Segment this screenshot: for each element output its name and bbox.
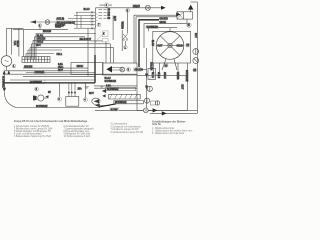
arrow down on wire 1 — [145, 74, 148, 78]
nested corner c4 — [148, 28, 177, 32]
lamp bottom — [143, 108, 148, 113]
right edge line — [196, 2, 198, 110]
svg-text:GRAU: GRAU — [77, 65, 84, 68]
legend middle items — [111, 123, 144, 134]
arrow right bottom 1 — [153, 108, 158, 112]
loom parallelogram 2 — [114, 101, 143, 104]
svg-text:Krupp ZB 10 mit 4-fach Scheinw: Krupp ZB 10 mit 4-fach Scheinwerfer und … — [14, 120, 88, 123]
wire stair 6 — [28, 50, 62, 59]
big arrow left solid — [106, 66, 112, 73]
relay strip box — [106, 87, 136, 90]
wire to vertical — [141, 69, 146, 71]
top line with lamp — [96, 7, 162, 9]
svg-text:(GELB): (GELB) — [57, 19, 65, 21]
box A control — [71, 63, 103, 75]
wire thin continuation up — [94, 28, 96, 55]
wire generator down — [6, 66, 8, 70]
scissors cut symbol — [123, 34, 128, 39]
relay circle 2 — [155, 101, 159, 105]
arrow left mid 2 — [102, 94, 105, 97]
wire stair 2 — [35, 37, 86, 59]
svg-text:BRAUN: BRAUN — [43, 30, 51, 33]
wire stair 5 — [30, 48, 114, 63]
wire down from generator area — [3, 75, 5, 89]
node 12 — [186, 43, 190, 47]
svg-text:GELB: GELB — [177, 45, 184, 47]
wire stair 7 — [26, 54, 54, 60]
svg-text:8 Schlussleuchte Lampe 6V 5W: 8 Schlussleuchte Lampe 6V 5W — [111, 131, 144, 134]
bottom second line — [150, 110, 197, 113]
wire stub node4 — [84, 83, 86, 97]
lamp symbol S1 — [45, 20, 50, 25]
wire bus left c — [4, 73, 137, 75]
arrow small left pair — [45, 95, 48, 98]
node 13 — [193, 68, 197, 72]
label box on line — [133, 5, 140, 8]
ground marks — [85, 87, 90, 89]
wire top-left horizontal — [30, 21, 68, 23]
svg-text:GELB: GELB — [37, 42, 44, 44]
battery pins — [69, 83, 75, 97]
arrow down solid — [3, 88, 6, 92]
svg-text:ROT: ROT — [36, 45, 41, 47]
arrow left mid 1 — [102, 89, 106, 93]
wire bus left a — [23, 67, 88, 69]
svg-text:5 Lichtmaschine: 5 Lichtmaschine — [111, 123, 128, 126]
svg-text:ROT: ROT — [89, 93, 94, 95]
arrow up solid — [188, 5, 193, 10]
svg-text:BLAU: BLAU — [84, 8, 90, 11]
wire double line — [112, 68, 123, 71]
nested corner c1 — [134, 15, 177, 63]
node 3 — [57, 97, 61, 101]
svg-text:GELB: GELB — [58, 26, 65, 28]
wire bus left b — [4, 70, 88, 72]
svg-text:FAHRER: FAHRER — [35, 71, 45, 74]
svg-text:HELL: HELL — [57, 54, 63, 56]
svg-text:15A: 15A — [78, 88, 83, 91]
flasher circle inside — [144, 98, 149, 103]
fan housing box — [153, 31, 191, 63]
wire stair 3 — [33, 40, 90, 59]
svg-text:GRAU: GRAU — [133, 5, 140, 8]
svg-text:SCHW: SCHW — [111, 109, 119, 111]
svg-text:WEISS: WEISS — [176, 72, 178, 80]
vertical from G box — [105, 42, 107, 63]
arrow right bottom 2 — [162, 111, 167, 115]
wires below fan — [162, 59, 177, 70]
svg-text:ROT: ROT — [58, 70, 63, 72]
switch cluster grid — [68, 12, 95, 28]
label schwarz box on thick wire — [30, 80, 46, 83]
node 11 — [187, 23, 191, 27]
svg-text:SCHWARZ: SCHWARZ — [147, 26, 159, 29]
wire node2 stub — [39, 27, 41, 30]
label gelb-schwarz box — [56, 21, 74, 24]
terminal strip X1 — [22, 57, 50, 63]
wire lines mid right — [94, 86, 137, 88]
svg-text:GRUEN: GRUEN — [24, 67, 33, 69]
loom parallelogram 1 — [109, 94, 141, 99]
node 1b — [124, 46, 128, 50]
svg-text:SCHWARZ: SCHWARZ — [105, 80, 117, 83]
svg-text:ROT: ROT — [194, 33, 196, 38]
node 2 horn — [35, 87, 39, 91]
small kasten box — [102, 31, 108, 37]
svg-text:GRUEN: GRUEN — [37, 39, 46, 41]
svg-text:7 Zundkerze Lampe 6V 2W: 7 Zundkerze Lampe 6V 2W — [111, 128, 140, 131]
svg-text:3 - Blinkleuchten der linke: 3 - Blinkleuchten der linke Seite — [152, 132, 185, 135]
svg-text:SCHWARZ: SCHWARZ — [107, 88, 119, 91]
thick diagonal bottom — [99, 104, 116, 107]
svg-text:10 Sicherungsdose 8-fach: 10 Sicherungsdose 8-fach — [64, 135, 91, 138]
wire bus left d — [26, 72, 95, 74]
node 7 — [97, 23, 101, 27]
nested corner c3 — [144, 24, 190, 48]
connector pin rows — [99, 10, 107, 19]
legend left items — [14, 125, 94, 138]
wavy body line 1 — [95, 34, 106, 45]
wire box to node 11 — [186, 19, 188, 23]
svg-text:GRAU: GRAU — [159, 21, 166, 24]
svg-text:GRUEN: GRUEN — [150, 62, 152, 71]
svg-text:6.3A: 6.3A — [58, 63, 63, 66]
label gruen box — [134, 68, 141, 71]
wire to G box — [90, 40, 103, 42]
arrow left top-left — [31, 20, 37, 24]
bottom long line — [95, 109, 197, 111]
wire stair 1 — [36, 34, 96, 60]
wire thick ground run — [4, 82, 95, 84]
wire horn right — [44, 97, 49, 99]
connector box X2 — [177, 12, 193, 19]
wire thick vertical — [94, 55, 96, 83]
svg-text:SCHWARZ: SCHWARZ — [115, 101, 127, 104]
wire vertical into box — [146, 48, 148, 110]
svg-text:Lfde Nr.: Lfde Nr. — [152, 123, 162, 126]
svg-text:GELB: GELB — [16, 41, 18, 48]
arrow left bottom — [95, 104, 100, 107]
lamp top — [145, 5, 150, 10]
indicator lamp oval — [92, 98, 100, 104]
switch contacts — [91, 11, 93, 29]
svg-text:GELB ROT: GELB ROT — [80, 39, 92, 41]
wavy body line 2 — [148, 74, 160, 80]
wire generator up — [7, 28, 12, 55]
wire bus left f — [10, 79, 95, 81]
label schwarz box bottom — [110, 108, 119, 111]
svg-text:6V: 6V — [48, 92, 51, 94]
node 5 — [126, 9, 130, 13]
G box — [103, 39, 109, 42]
small box inside — [151, 101, 156, 105]
nested corner c2 thick — [139, 20, 159, 67]
svg-text:ROT: ROT — [158, 45, 163, 47]
fan M1 — [156, 32, 184, 60]
box B arrow unit — [103, 63, 138, 75]
svg-text:7.5A: 7.5A — [13, 41, 16, 46]
svg-text:BLAU: BLAU — [151, 40, 154, 46]
wire bus left e — [23, 75, 95, 77]
node 4 — [83, 98, 87, 102]
wire drop b — [22, 30, 24, 57]
battery B1 — [66, 97, 79, 107]
svg-text:GRUEN: GRUEN — [159, 18, 168, 20]
label fahrer box — [34, 71, 45, 74]
double line second — [136, 17, 177, 64]
node 1 — [12, 64, 16, 68]
svg-text:6 Zundspule mit Unterbrecher: 6 Zundspule mit Unterbrecher — [111, 125, 142, 128]
svg-text:GELB-SCHWARZ: GELB-SCHWARZ — [57, 21, 76, 24]
wire hook arc — [4, 92, 100, 108]
svg-text:GRAU: GRAU — [163, 72, 166, 79]
wire from node5 down — [127, 12, 129, 33]
svg-text:HELL: HELL — [58, 67, 64, 69]
wire vertical mid — [87, 28, 89, 76]
wire drop bus top — [7, 27, 24, 29]
svg-text:ROT: ROT — [181, 85, 183, 90]
legend right items — [152, 127, 193, 135]
pump symbol right — [193, 49, 199, 55]
node 8 — [127, 68, 131, 72]
lamp cross circle — [120, 67, 125, 72]
svg-text:5 Batteriekasten Spannung 6V: 5 Batteriekasten Spannung 6V 45Ah — [14, 135, 52, 138]
wire drop a — [18, 28, 20, 56]
arrow into box — [176, 13, 180, 17]
svg-text:BLAU: BLAU — [105, 77, 111, 80]
wire fanbox to bigbox — [154, 63, 188, 75]
generator G1 — [1, 56, 12, 67]
svg-text:SCHWARZ: SCHWARZ — [36, 105, 48, 108]
label schwarz boxed above fan — [146, 25, 157, 28]
wire stub node3 — [58, 83, 60, 97]
big right box — [137, 75, 187, 110]
pump symbol right 2 — [193, 58, 199, 64]
wire into cluster — [95, 8, 97, 28]
arrow down on wire 2 — [145, 86, 148, 90]
wire stair 4 — [32, 44, 111, 63]
svg-text:GRUEN: GRUEN — [134, 70, 143, 72]
relay circle upper — [147, 86, 152, 91]
arrow right top — [161, 6, 166, 10]
wire top bus — [13, 29, 68, 31]
node 10 — [164, 63, 168, 67]
node 2 — [38, 24, 41, 27]
small box left below fan — [148, 69, 156, 80]
wire corner top right — [191, 1, 198, 3]
horn H1 — [33, 96, 37, 101]
svg-text:WEISS: WEISS — [120, 22, 122, 30]
svg-text:BLAU: BLAU — [37, 34, 43, 37]
svg-text:GELB: GELB — [157, 72, 159, 79]
connector column node 4 top — [104, 3, 108, 7]
arrow double down — [3, 70, 11, 75]
